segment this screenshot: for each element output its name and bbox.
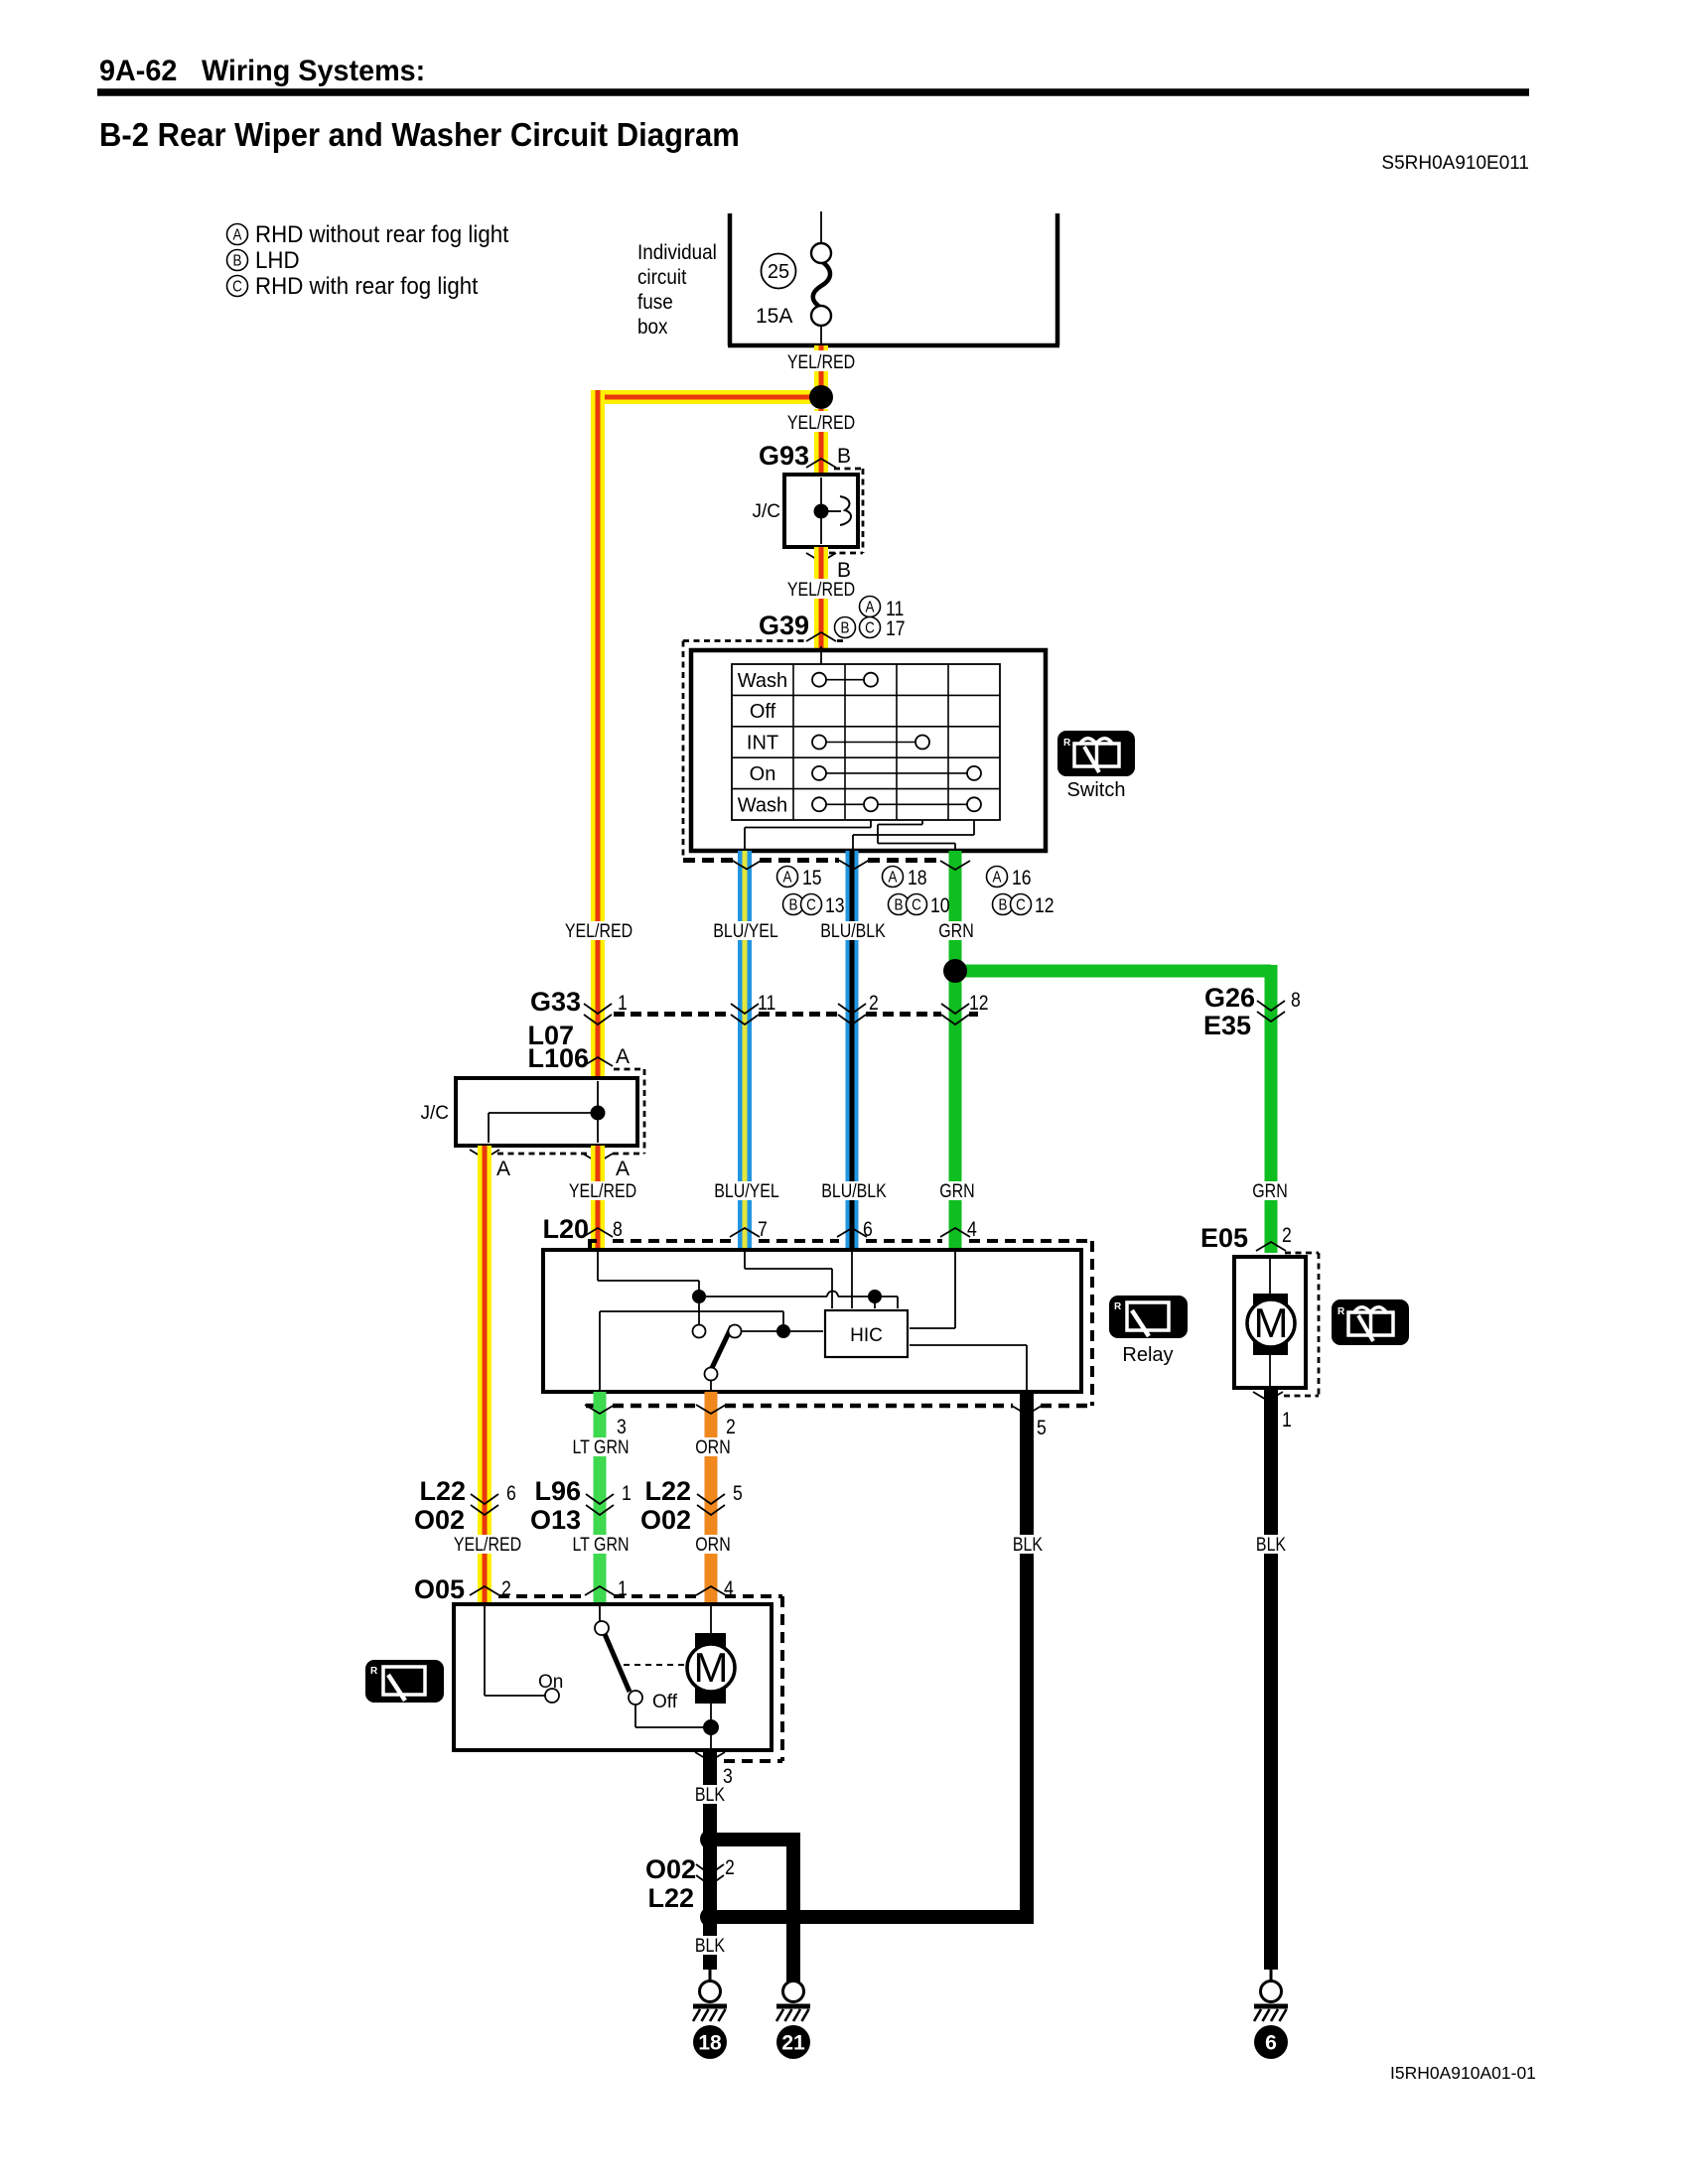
switch pin labels A15 BC13 (777, 867, 845, 918)
svg-text:O05: O05 (414, 1574, 465, 1604)
switch exit pin notches (732, 861, 970, 871)
svg-text:circuit: circuit (637, 266, 687, 289)
svg-text:18: 18 (908, 867, 927, 890)
page header 9A-62 Wiring Systems (97, 54, 1529, 92)
svg-text:A: A (866, 600, 875, 616)
switch internal routing to output pins (745, 820, 974, 849)
legend variant C RHD with rear fog light (227, 272, 479, 299)
connector L106 label and pin A (527, 1043, 630, 1073)
svg-text:RHD without rear fog light: RHD without rear fog light (255, 220, 509, 247)
svg-text:13: 13 (825, 894, 845, 918)
svg-text:GRN: GRN (939, 1180, 974, 1202)
connector L22 O02 pin 5 (640, 1476, 743, 1535)
switch contacts row Wash2 (812, 797, 981, 811)
svg-text:J/C: J/C (421, 1103, 450, 1124)
fuse box caption (637, 241, 717, 339)
wire ORN relay to washer switch (705, 1392, 718, 1604)
svg-text:C: C (1016, 897, 1026, 914)
svg-text:On: On (538, 1672, 563, 1693)
svg-text:Wiring Systems:: Wiring Systems: (202, 54, 425, 87)
svg-text:21: 21 (781, 2032, 805, 2055)
switch contacts row On (812, 766, 981, 780)
switch icon (1057, 731, 1135, 801)
svg-text:E05: E05 (1200, 1223, 1248, 1253)
svg-text:1: 1 (1282, 1409, 1292, 1433)
figure code S5RH0A910E011 (1381, 153, 1529, 174)
labels LT GRN ORN below relay (568, 1436, 736, 1458)
svg-text:8: 8 (613, 1218, 623, 1242)
svg-text:M: M (694, 1644, 729, 1691)
svg-text:A: A (616, 1045, 630, 1068)
footer code I5RH0A910A01-01 (1390, 2063, 1536, 2083)
connector L22 O02 pin 6 (414, 1476, 516, 1535)
svg-text:2: 2 (1282, 1224, 1292, 1248)
connector G93 exit pin B (806, 553, 851, 582)
svg-text:BLU/BLK: BLU/BLK (820, 920, 886, 942)
svg-text:G26: G26 (1204, 983, 1255, 1013)
wire into fuse (820, 211, 822, 244)
svg-text:YEL/RED: YEL/RED (565, 920, 633, 942)
svg-text:O02: O02 (645, 1854, 696, 1884)
connector G33 L07 labels (527, 987, 581, 1050)
svg-text:B-2 Rear Wiper and Washer Circ: B-2 Rear Wiper and Washer Circuit Diagra… (99, 116, 740, 153)
title B-2 Rear Wiper and Washer Circuit Diagram (99, 116, 740, 153)
svg-text:5: 5 (1037, 1417, 1047, 1440)
svg-text:YEL/RED: YEL/RED (454, 1534, 521, 1556)
label YEL/RED above junction (783, 350, 860, 372)
switch connector G39 dashed outline (683, 641, 942, 861)
rear wiper relay box (543, 1250, 1081, 1392)
svg-text:1: 1 (622, 1482, 632, 1506)
svg-text:11: 11 (758, 992, 775, 1016)
switch contact table (732, 664, 1000, 820)
svg-text:Wash: Wash (738, 795, 787, 817)
wire YEL/RED junction to G93 (814, 409, 828, 475)
relay icon (1109, 1296, 1188, 1366)
svg-text:G33: G33 (530, 987, 581, 1017)
svg-text:17: 17 (886, 617, 906, 641)
connector L20 dashed outline (586, 1241, 1092, 1406)
fuse 25 15A (756, 243, 831, 345)
svg-text:C: C (806, 897, 816, 914)
svg-text:B: B (837, 445, 851, 468)
svg-text:GRN: GRN (1252, 1180, 1287, 1202)
svg-text:LT GRN: LT GRN (572, 1534, 629, 1556)
connector L106 exit pins A A (470, 1150, 630, 1180)
svg-text:16: 16 (1012, 867, 1032, 890)
washer icon (365, 1660, 444, 1703)
connector G26 E35 pin 8 (1203, 983, 1301, 1040)
svg-text:Relay: Relay (1122, 1344, 1173, 1366)
svg-text:ORN: ORN (695, 1534, 730, 1556)
relay internal wiring pin4 (910, 1252, 955, 1328)
svg-text:BLU/BLK: BLU/BLK (821, 1180, 887, 1202)
svg-text:RHD with rear fog light: RHD with rear fog light (255, 272, 479, 299)
svg-text:LHD: LHD (255, 246, 300, 273)
svg-text:L22: L22 (419, 1476, 466, 1506)
label GRN right branch (1247, 1180, 1293, 1202)
svg-text:R: R (1337, 1306, 1345, 1317)
junction connector J/C G93 box (753, 475, 859, 547)
svg-text:YEL/RED: YEL/RED (569, 1180, 636, 1202)
motor E05 exit pin 1 (1253, 1392, 1292, 1432)
svg-text:12: 12 (969, 992, 989, 1016)
rear washer motor box (454, 1604, 772, 1750)
wire YEL/RED L106 to washer switch (478, 1146, 492, 1604)
svg-text:INT: INT (747, 733, 778, 754)
ground 21 (776, 1970, 810, 2059)
wire color labels above washer switch (451, 1534, 736, 1556)
svg-text:YEL/RED: YEL/RED (787, 412, 855, 434)
legend variant B LHD (227, 246, 300, 273)
junction connector J/C L106 dashed outline (497, 1069, 644, 1154)
svg-text:box: box (637, 316, 667, 339)
svg-text:A: A (233, 227, 242, 244)
svg-text:B: B (841, 620, 850, 637)
legend variant A RHD without rear fog light (227, 220, 509, 247)
connector row G33 L07 dashed line (614, 1012, 978, 1017)
connector row pin 1 (584, 992, 628, 1024)
svg-text:25: 25 (768, 261, 789, 283)
connector O05 label and pins 2 1 4 (414, 1574, 734, 1604)
svg-text:YEL/RED: YEL/RED (787, 579, 855, 601)
wire BLU/YEL switch to relay (738, 851, 752, 1250)
washer internal dashed link (624, 1664, 686, 1666)
svg-text:E35: E35 (1203, 1011, 1251, 1040)
svg-text:6: 6 (506, 1482, 516, 1506)
svg-text:L22: L22 (647, 1883, 694, 1913)
washer connector O05 dashed outline (498, 1596, 782, 1761)
svg-text:L20: L20 (542, 1214, 589, 1244)
rear wiper motor icon (1332, 1299, 1409, 1345)
svg-text:BLU/YEL: BLU/YEL (713, 920, 778, 942)
svg-text:O13: O13 (530, 1505, 581, 1535)
wire YEL/RED left vertical to L106 (591, 390, 605, 1078)
junction dot GRN (943, 959, 967, 983)
svg-text:Individual: Individual (637, 241, 717, 264)
connector E05 pin 2 (1200, 1223, 1292, 1253)
individual circuit fuse box outline (728, 213, 1059, 345)
relay internal wiring pin7 (745, 1252, 832, 1308)
svg-text:R: R (1114, 1301, 1122, 1312)
switch pin labels A16 BC12 (987, 867, 1055, 918)
wire BLK E05 to ground (1264, 1388, 1278, 1970)
svg-text:15A: 15A (756, 305, 792, 328)
wire YEL/RED G93 to G39 (814, 547, 828, 650)
svg-text:BLK: BLK (1013, 1534, 1043, 1556)
svg-text:2: 2 (869, 992, 879, 1016)
svg-text:2: 2 (725, 1856, 735, 1880)
svg-text:4: 4 (967, 1218, 977, 1242)
wire GRN horizontal branch to G26 (955, 965, 1271, 1253)
svg-text:15: 15 (802, 867, 822, 890)
svg-text:A: A (783, 870, 792, 887)
svg-text:J/C: J/C (753, 501, 781, 522)
ground 6 (1254, 1970, 1288, 2059)
svg-text:18: 18 (698, 2032, 722, 2055)
washer motor M (687, 1606, 735, 1748)
svg-text:A: A (616, 1158, 630, 1180)
svg-text:1: 1 (618, 992, 628, 1016)
svg-text:A: A (496, 1158, 510, 1180)
svg-text:ORN: ORN (695, 1436, 730, 1458)
svg-text:B: B (895, 897, 904, 914)
wire color labels below switch (562, 920, 978, 942)
wire BLK washer to ground 18 (703, 1750, 717, 1970)
wire BLK branch to ground 21 (710, 1840, 800, 1981)
connector row pin 12 (941, 992, 989, 1024)
svg-text:I5RH0A910A01-01: I5RH0A910A01-01 (1390, 2063, 1536, 2083)
svg-text:O02: O02 (414, 1505, 465, 1535)
svg-text:C: C (232, 279, 242, 296)
relay internal wiring pin6 (851, 1252, 853, 1308)
relay internal LT GRN path (600, 1311, 783, 1390)
switch contacts row Wash1 (812, 673, 878, 687)
junction connector J/C G93 dashed outline (829, 469, 863, 553)
svg-text:BLK: BLK (1256, 1534, 1286, 1556)
label BLK washer (688, 1784, 732, 1806)
washer exit pin 3 (695, 1752, 733, 1788)
svg-text:L96: L96 (534, 1476, 581, 1506)
label YEL/RED below junction (783, 411, 860, 433)
svg-text:8: 8 (1291, 989, 1301, 1013)
switch pin labels A18 BC10 (883, 867, 950, 918)
svg-text:L22: L22 (644, 1476, 691, 1506)
svg-text:6: 6 (1265, 2032, 1277, 2055)
junction connector J/C L106 box (421, 1078, 638, 1146)
connector O02 L22 pin 2 (645, 1854, 735, 1913)
switch contacts row INT (812, 736, 929, 750)
relay HIC block (825, 1310, 908, 1357)
svg-text:C: C (912, 897, 921, 914)
wire BLK relay to ground (710, 1392, 1034, 1917)
svg-text:7: 7 (758, 1218, 768, 1242)
svg-text:HIC: HIC (850, 1325, 883, 1346)
motor E05 box (1234, 1257, 1306, 1388)
svg-text:BLU/YEL: BLU/YEL (714, 1180, 779, 1202)
svg-text:9A-62: 9A-62 (99, 54, 177, 87)
relay internal wiring pin8 (598, 1252, 699, 1293)
washer internal switch arm (595, 1606, 707, 1727)
junction dot BLK 2 (700, 1907, 720, 1927)
svg-text:M: M (1254, 1299, 1289, 1346)
connector L96 O13 pin 1 (530, 1476, 632, 1535)
rear wiper and washer switch box (691, 646, 1046, 851)
svg-text:B: B (999, 897, 1008, 914)
labels BLK above grounds (1006, 1534, 1293, 1556)
svg-text:G93: G93 (759, 441, 809, 471)
junction dot BLK 1 (700, 1830, 720, 1849)
connector row pin 11 (731, 992, 775, 1024)
svg-text:Wash: Wash (738, 670, 787, 692)
washer internal YEL/RED to On contact (485, 1606, 563, 1703)
relay internal wiring pin5 ground (711, 1345, 1027, 1390)
wire YEL/RED horizontal branch to left (598, 390, 821, 404)
svg-text:C: C (865, 620, 875, 637)
wire BLU/BLK switch to relay (846, 851, 859, 1250)
svg-text:LT GRN: LT GRN (572, 1436, 629, 1458)
svg-text:YEL/RED: YEL/RED (787, 351, 855, 373)
svg-text:Switch: Switch (1067, 779, 1126, 801)
svg-text:R: R (1063, 738, 1071, 749)
wire color labels above relay (566, 1180, 979, 1202)
svg-text:L106: L106 (527, 1043, 589, 1073)
relay internal junction dot 1 (692, 1290, 706, 1325)
svg-text:R: R (370, 1666, 378, 1677)
wire LT GRN relay to washer switch (594, 1392, 607, 1604)
svg-text:A: A (993, 870, 1002, 887)
svg-text:fuse: fuse (637, 291, 673, 314)
svg-text:12: 12 (1035, 894, 1055, 918)
svg-text:On: On (750, 763, 776, 785)
relay internal bus to HIC with hop (706, 1290, 898, 1308)
wire GRN switch to relay (949, 851, 962, 1250)
connector row pin 2 (838, 992, 879, 1024)
label BLK above ground 18 (688, 1935, 732, 1957)
svg-text:5: 5 (733, 1482, 743, 1506)
relay bottom pins 3 2 5 (585, 1405, 1047, 1439)
connector L20 label and pins 8 7 6 4 (542, 1214, 977, 1244)
svg-text:GRN: GRN (938, 920, 973, 942)
motor E05 dashed outline (1284, 1253, 1319, 1396)
relay contact circles and arm (693, 1324, 824, 1381)
connector G93 label and pin B (759, 441, 851, 471)
svg-text:A: A (889, 870, 898, 887)
svg-text:O02: O02 (640, 1505, 691, 1535)
svg-text:G39: G39 (759, 611, 809, 640)
svg-text:BLK: BLK (695, 1935, 725, 1957)
connector G39 label and pins A11 BC17 (759, 597, 906, 642)
svg-text:S5RH0A910E011: S5RH0A910E011 (1381, 153, 1529, 174)
svg-text:B: B (789, 897, 798, 914)
junction dot YEL/RED (809, 385, 833, 409)
svg-text:Off: Off (750, 701, 776, 723)
wire YEL/RED from fuse box (814, 345, 828, 397)
label YEL/RED below G93 (783, 579, 860, 601)
svg-text:10: 10 (930, 894, 950, 918)
svg-text:Off: Off (652, 1692, 678, 1712)
svg-text:B: B (233, 253, 242, 270)
wire YEL/RED L106 to relay (591, 1146, 605, 1250)
svg-text:BLK: BLK (695, 1784, 725, 1806)
svg-text:6: 6 (863, 1218, 873, 1242)
ground 18 (693, 1970, 727, 2059)
